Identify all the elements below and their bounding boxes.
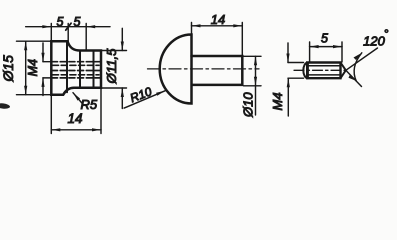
svg-text:R5: R5 xyxy=(81,97,98,112)
arrow 5,5 right xyxy=(86,25,95,28)
screw cone point xyxy=(341,63,346,79)
leader R5 xyxy=(73,93,84,106)
leader R10 rivet xyxy=(124,91,165,108)
dim 120deg rays xyxy=(346,48,378,87)
svg-text:Ø11,5: Ø11,5 xyxy=(104,48,119,85)
screw dome end xyxy=(303,63,308,79)
svg-text:5: 5 xyxy=(74,15,81,29)
left part outline xyxy=(51,41,101,95)
left part thread hidden lines xyxy=(52,62,101,78)
rivet head xyxy=(160,35,192,104)
screw thread lines xyxy=(308,66,341,75)
dim 14 bottom left part xyxy=(51,88,101,134)
scan smudge left edge xyxy=(0,103,10,110)
svg-text:Ø15: Ø15 xyxy=(0,55,16,83)
screw centerline xyxy=(294,69,349,71)
dim D10 rivet xyxy=(244,56,262,115)
dim D11.5 xyxy=(101,28,127,108)
rivet shank xyxy=(192,56,243,85)
svg-text:°: ° xyxy=(384,27,389,41)
dim M4 screw xyxy=(288,43,304,116)
svg-text:M4: M4 xyxy=(270,92,285,110)
dim 5 screw xyxy=(310,42,342,62)
svg-text:M4: M4 xyxy=(26,59,40,76)
screw body xyxy=(307,63,340,79)
arrow 5,5 left xyxy=(42,25,51,28)
dim 5,5 top dimension line xyxy=(26,24,110,51)
svg-text:120: 120 xyxy=(363,34,385,49)
rivet centerline xyxy=(148,68,260,70)
svg-text:5: 5 xyxy=(321,32,328,46)
svg-text:Ø10: Ø10 xyxy=(241,92,256,118)
dim D15 xyxy=(17,41,52,94)
dim 14 rivet xyxy=(192,23,243,57)
dim M4 left part xyxy=(43,43,51,96)
svg-text:14: 14 xyxy=(67,111,82,126)
tick between 5 and 5 xyxy=(66,23,71,30)
svg-text:5: 5 xyxy=(57,15,64,29)
svg-text:14: 14 xyxy=(211,12,225,27)
left part interior vertical lines xyxy=(67,42,94,92)
